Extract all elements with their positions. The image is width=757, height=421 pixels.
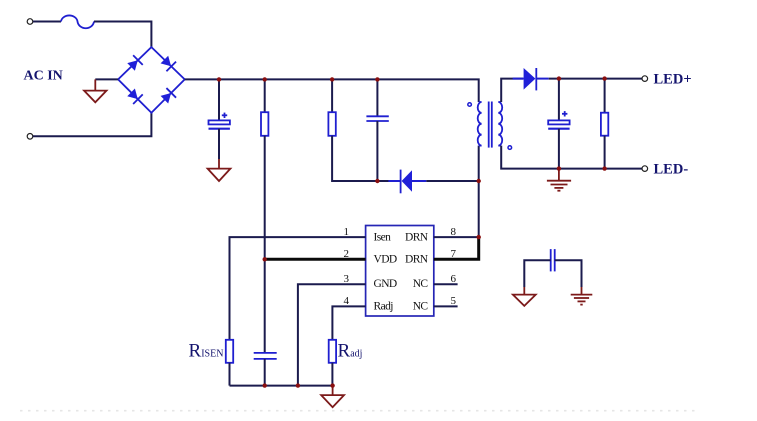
wire [33, 113, 151, 137]
wire [555, 260, 582, 287]
wire [264, 359, 266, 386]
wire [33, 21, 61, 23]
node rail-Radj [330, 383, 334, 387]
node out-top-R3 [602, 76, 606, 80]
wire [332, 136, 400, 181]
terminal LED- [642, 166, 648, 172]
svg-text:VDD: VDD [374, 254, 397, 266]
pin 3 wire GND [298, 284, 366, 385]
wire [218, 129, 220, 159]
wire [229, 363, 231, 386]
node rail-C4 [263, 383, 267, 387]
ground GND2 [208, 159, 231, 181]
transformer core [489, 102, 492, 148]
transformer secondary winding [498, 102, 502, 146]
fuse F1 [61, 15, 94, 28]
pin 2 wire VDD thick [265, 258, 366, 261]
diode D2 upper-right [160, 55, 176, 71]
svg-text:NC: NC [413, 300, 429, 312]
IC U1 box [366, 226, 434, 317]
wire secondary bottom [501, 146, 642, 169]
polarity dot secondary [508, 146, 512, 150]
svg-text:DRN: DRN [405, 231, 429, 243]
transformer T1 primary winding [478, 102, 482, 146]
svg-text:Isen: Isen [374, 231, 392, 243]
svg-text:1: 1 [343, 226, 348, 238]
wire [558, 129, 560, 170]
capacitor C5 Y-cap [551, 249, 555, 271]
dotted page border [20, 410, 700, 412]
ground GND1 [84, 79, 106, 102]
wire [331, 363, 333, 386]
svg-text:LED-: LED- [654, 162, 689, 178]
svg-text:DRN: DRN [405, 254, 429, 266]
diode D3 lower-left [126, 88, 142, 104]
node rail-pin3 [296, 383, 300, 387]
diode D6 output [513, 68, 549, 90]
polarity dot primary [468, 103, 472, 107]
terminal AC bottom [27, 134, 33, 140]
wire [264, 136, 266, 353]
wire secondary top [501, 79, 523, 102]
ground GND3 earth [547, 170, 571, 191]
pin 1 wire Isen [230, 237, 366, 340]
bridge rectifier diamond [118, 47, 185, 113]
capacitor C1 electrolytic [218, 79, 220, 120]
terminal LED+ [642, 76, 648, 82]
svg-text:GND: GND [374, 278, 397, 290]
resistor R_ISEN [226, 340, 233, 363]
pin 8 wire DRN [434, 236, 479, 238]
resistor R1 [264, 79, 266, 112]
ground GND5 [513, 287, 536, 306]
node diode-primary [477, 179, 481, 183]
svg-text:LED+: LED+ [654, 72, 692, 88]
node C2-diode wire [375, 179, 379, 183]
diode D1 upper-left [126, 55, 142, 71]
diode D5 freewheel [388, 170, 426, 194]
node bus-R1 [263, 77, 267, 81]
svg-text:Radj: Radj [374, 300, 394, 312]
wire primary down [478, 146, 480, 260]
capacitor C3 output electrolytic [558, 79, 560, 121]
svg-text:AC IN: AC IN [24, 69, 63, 84]
diode D4 lower-right [160, 88, 176, 104]
node out-bot-R3 [602, 166, 606, 170]
node bus-C2 [375, 77, 379, 81]
node pin2-VDD [263, 257, 267, 261]
pin 5 stub NC [434, 305, 458, 307]
wire [376, 121, 378, 181]
node out-bot-C3 [557, 166, 561, 170]
node bus-R2 [330, 77, 334, 81]
wire [94, 22, 151, 48]
wire [604, 136, 606, 169]
resistor R_adj [329, 340, 336, 363]
node pin8-primary [477, 235, 481, 239]
wire bridge left to ground [95, 78, 118, 80]
wire [524, 260, 550, 287]
pin 6 stub NC [434, 283, 458, 285]
pin 7 wire DRN thick [434, 237, 479, 259]
wire [426, 180, 478, 182]
wire [549, 78, 642, 80]
pin 4 wire Radj [332, 306, 365, 339]
wire DC bus [185, 79, 479, 102]
resistor R3 output [604, 79, 606, 113]
wire bottom rail [230, 385, 333, 387]
svg-text:NC: NC [413, 278, 429, 290]
terminal AC top [27, 19, 33, 25]
capacitor C4 [254, 353, 277, 359]
resistor R2 [331, 79, 333, 112]
svg-text:2: 2 [343, 248, 348, 260]
node bus-C1 [217, 77, 221, 81]
ground GND6 earth [571, 287, 593, 305]
ground GND4 [321, 386, 344, 408]
capacitor C2 [376, 79, 378, 116]
node out-top-C3 [557, 76, 561, 80]
